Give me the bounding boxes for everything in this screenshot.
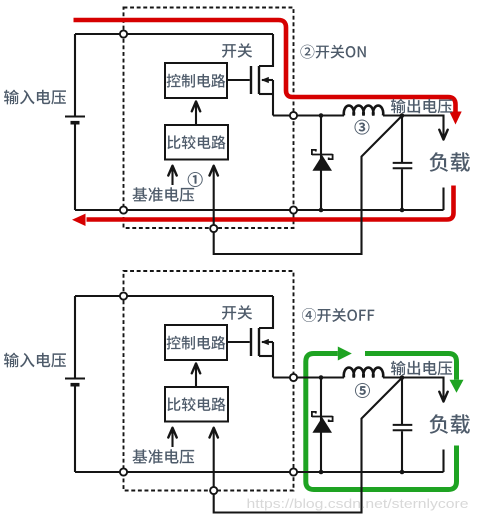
label: step (5) ⑤	[355, 383, 370, 398]
top supply wire (bottom)	[75, 295, 273, 297]
node: feedback pin (top)	[210, 225, 217, 232]
wire to load arrow (top)	[402, 116, 444, 140]
inductor L1 (bottom)	[344, 368, 383, 378]
MOSFET drain lead (top)	[259, 34, 273, 66]
label: reference voltage 基准电压 (top)	[133, 187, 195, 202]
load bottom lead (top)	[442, 188, 444, 211]
junction: diode cathode (top)	[319, 113, 324, 118]
input branch wire upper (top)	[74, 34, 76, 117]
MOSFET source bar lead (bottom)	[259, 355, 273, 357]
svg-text:https://blog.csdn.net/sternlyc: https://blog.csdn.net/sternlycore	[247, 496, 469, 511]
node: feedback pin (bottom)	[210, 487, 217, 494]
capacitor C1 top plate (top)	[393, 162, 413, 164]
comparison circuit block U-comp (top)	[165, 125, 228, 160]
MOSFET gate lead (bottom)	[227, 341, 250, 343]
capacitor C1 bottom plate (bottom)	[393, 429, 413, 431]
red current-flow path (ON), upper run	[74, 20, 456, 112]
label: output voltage 输出电压 (bottom)	[391, 361, 452, 376]
MOSFET source lead down (bottom)	[272, 342, 274, 378]
IC dashed boundary box (top)	[124, 8, 294, 229]
label: (2) switch ON ②开关ON	[300, 45, 365, 59]
label: control circuit 控制电路 (bottom)	[167, 336, 226, 350]
arrowhead reference into comparison (top)	[168, 166, 176, 176]
capacitor C1 lower lead (top)	[401, 169, 403, 210]
ground return wire (top)	[75, 209, 444, 211]
junction: capacitor at ground (top)	[400, 208, 405, 213]
junction: capacitor at ground (bottom)	[400, 470, 405, 475]
MOSFET channel bar (top)	[258, 66, 260, 94]
inductor L1 (top)	[344, 106, 383, 116]
arrowhead feedback into comparison (bottom)	[210, 428, 218, 438]
node: supply enters IC (bottom)	[120, 292, 127, 299]
input branch wire lower (bottom)	[74, 386, 76, 473]
output rail right segment (top)	[383, 114, 402, 116]
feedback routing wire (bottom)	[214, 378, 402, 513]
wire to load arrow (bottom)	[402, 378, 444, 402]
arrowhead into control block (bottom)	[192, 364, 200, 374]
capacitor C1 bottom plate (top)	[393, 167, 413, 169]
output rail right segment (bottom)	[383, 376, 402, 378]
label: comparison circuit 比较电路 (top)	[167, 135, 225, 149]
red arrowhead into load	[449, 112, 461, 125]
control circuit block U-ctrl (top)	[165, 63, 227, 98]
reference voltage wire (top)	[171, 166, 173, 185]
arrowhead into load (top)	[439, 130, 447, 140]
IC dashed boundary box (bottom)	[124, 271, 294, 491]
output rail left segment (top)	[294, 114, 345, 116]
feedback routing wire (top)	[214, 116, 402, 254]
diode branch wire (bottom)	[320, 378, 322, 473]
label: switch 开关 (top)	[222, 43, 252, 58]
reference voltage wire (bottom)	[171, 428, 173, 447]
label: load 负载 (bottom)	[430, 414, 470, 434]
node: switch output pin (bottom)	[290, 374, 297, 381]
schottky diode D1 cathode bar (bottom)	[312, 412, 333, 421]
junction: output node (bottom)	[400, 375, 405, 380]
MOSFET body arrowhead (bottom)	[261, 339, 269, 345]
node: IC ground pin (bottom)	[290, 468, 297, 475]
battery V1 short plate (bottom)	[71, 383, 80, 387]
label: output voltage 输出电压 (top)	[391, 99, 452, 114]
MOSFET body-arrow lead (top)	[262, 79, 273, 81]
schottky diode D1 cathode bar (top)	[312, 150, 333, 159]
MOSFET channel bar (bottom)	[258, 328, 260, 356]
input branch wire lower (top)	[74, 124, 76, 211]
schottky diode D1 anode triangle (bottom)	[312, 417, 332, 433]
node: ground enters IC (top)	[120, 206, 127, 213]
capacitor C1 upper lead (top)	[401, 116, 403, 163]
arrowhead into control block (top)	[192, 102, 200, 112]
source to IC pin wire (bottom)	[273, 376, 290, 378]
feedback wire into comparison (bottom)	[213, 428, 215, 487]
label: input voltage 输入电压 (bottom)	[4, 353, 66, 368]
MOSFET gate lead (top)	[227, 79, 250, 81]
label: control circuit 控制电路 (top)	[167, 74, 226, 88]
label: step (1) ①	[188, 172, 203, 187]
MOSFET body-arrow lead (bottom)	[262, 341, 273, 343]
wire comparison->control (top)	[195, 102, 197, 125]
MOSFET gate bar (top)	[250, 66, 252, 94]
node: ground enters IC (bottom)	[120, 468, 127, 475]
MOSFET drain lead (bottom)	[259, 296, 273, 328]
battery V1 long plate (bottom)	[65, 378, 85, 380]
label: reference voltage 基准电压 (bottom)	[133, 449, 195, 464]
control circuit block U-ctrl (bottom)	[165, 325, 227, 360]
red current-flow path (ON), return run	[87, 186, 454, 220]
load bottom lead (bottom)	[442, 450, 444, 473]
label: (4) switch OFF ④开关OFF	[302, 308, 374, 322]
battery V1 short plate (top)	[71, 121, 80, 125]
arrowhead feedback into comparison (top)	[210, 166, 218, 176]
node: switch output pin (top)	[290, 112, 297, 119]
label: load 负载 (top)	[430, 152, 470, 172]
arrowhead reference into comparison (bottom)	[168, 428, 176, 438]
schottky diode D1 anode triangle (top)	[312, 155, 332, 171]
junction: diode anode at ground (top)	[319, 208, 324, 213]
green current-flow loop (OFF), segment with down arrow	[365, 354, 457, 380]
feedback wire into comparison (top)	[213, 166, 215, 225]
label: switch 开关 (bottom)	[222, 305, 252, 320]
diode branch wire (top)	[320, 116, 322, 211]
top supply wire (top)	[75, 33, 273, 35]
output rail left segment (bottom)	[294, 376, 345, 378]
capacitor C1 lower lead (bottom)	[401, 431, 403, 472]
label: step (3) ③	[355, 120, 370, 135]
red arrowhead return to source	[72, 214, 86, 226]
input branch wire upper (bottom)	[74, 296, 76, 379]
wire comparison->control (bottom)	[195, 364, 197, 387]
MOSFET body arrowhead (top)	[261, 77, 269, 83]
green current-flow loop (OFF), main segment	[306, 354, 457, 490]
MOSFET source lead down (top)	[272, 80, 274, 116]
comparison circuit block U-comp (bottom)	[165, 387, 228, 422]
label: input voltage 输入电压 (top)	[4, 90, 66, 105]
source to IC pin wire (top)	[273, 114, 290, 116]
ground return wire (bottom)	[75, 471, 444, 473]
junction: diode cathode (bottom)	[319, 375, 324, 380]
junction: output node (top)	[400, 113, 405, 118]
battery V1 long plate (top)	[65, 116, 85, 118]
node: IC ground pin (top)	[290, 206, 297, 213]
capacitor C1 upper lead (bottom)	[401, 378, 403, 425]
label: comparison circuit 比较电路 (bottom)	[167, 397, 225, 411]
green arrowhead down right side	[450, 380, 464, 393]
green arrowhead right along top	[338, 347, 352, 361]
junction: diode anode at ground (bottom)	[319, 470, 324, 475]
MOSFET gate bar (bottom)	[250, 328, 252, 356]
node: supply enters IC (top)	[120, 30, 127, 37]
MOSFET source bar lead (top)	[259, 93, 273, 95]
capacitor C1 top plate (bottom)	[393, 424, 413, 426]
arrowhead into load (bottom)	[439, 392, 447, 402]
